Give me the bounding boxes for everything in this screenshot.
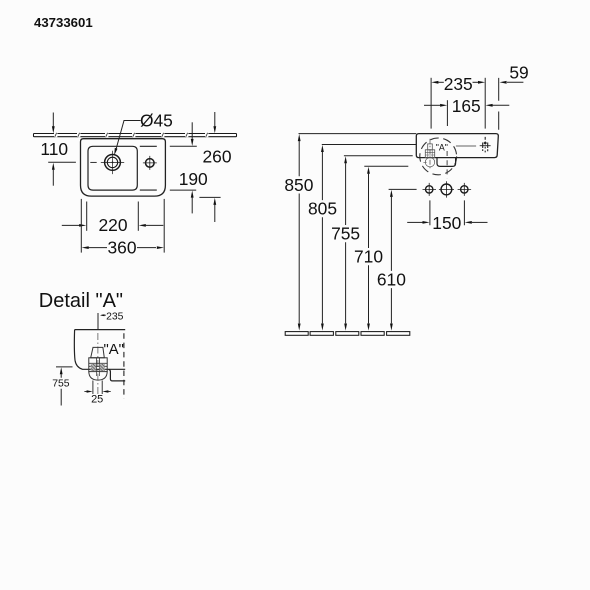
inner bowl (plan view) <box>88 146 137 190</box>
svg-text:150: 150 <box>432 213 461 233</box>
detail: nut hatched sections <box>91 364 105 371</box>
svg-text:Ø45: Ø45 <box>140 111 173 131</box>
svg-text:235: 235 <box>444 74 473 94</box>
detail: bolt centerline <box>97 333 99 397</box>
detail: bolt neck <box>91 347 105 357</box>
dimension 260 (overall depth) <box>199 112 220 222</box>
svg-text:190: 190 <box>179 169 208 189</box>
detail: bolt washer body <box>89 358 107 372</box>
svg-text:260: 260 <box>202 146 231 166</box>
dimension 360 (overall width) <box>81 199 164 253</box>
detail: label "A" <box>104 342 124 358</box>
dimension 150 (hole spacing) <box>407 200 487 225</box>
dimension 805 <box>321 145 416 331</box>
tap hole symbol right (front view) <box>480 137 491 153</box>
detail: bolt dome <box>89 372 107 381</box>
svg-text:755: 755 <box>52 378 70 389</box>
dimension 220 (bowl width) <box>62 202 164 231</box>
svg-text:"A": "A" <box>104 342 124 358</box>
floor line segments <box>285 332 410 336</box>
basin centerline (front view) <box>456 145 476 147</box>
svg-text:610: 610 <box>377 270 406 290</box>
bolt centerline (front view) <box>429 139 431 170</box>
svg-text:710: 710 <box>354 247 383 267</box>
detail: basin deck left edge and bottom <box>74 330 125 370</box>
extension dashed line basin corner (top dims) <box>498 78 500 130</box>
dimension 235 (top) <box>431 81 485 84</box>
svg-text:805: 805 <box>308 199 337 219</box>
svg-text:360: 360 <box>107 237 136 257</box>
dimension 165 (top) <box>424 104 509 107</box>
svg-text:Detail "A": Detail "A" <box>39 290 123 312</box>
svg-text:25: 25 <box>91 393 103 405</box>
detail circle "A" (dashed, front view) <box>420 138 457 175</box>
extension line left bolt center (top dims) <box>430 78 432 129</box>
Detail "A" title <box>39 290 123 312</box>
mounting hole right <box>458 183 472 196</box>
mounting hole middle <box>439 181 454 197</box>
part number 43733601 <box>34 15 93 30</box>
svg-text:110: 110 <box>40 139 68 159</box>
svg-text:59: 59 <box>509 63 528 83</box>
basin profile (front view) <box>416 134 498 158</box>
label Ø45 with leader <box>114 111 173 156</box>
svg-text:755: 755 <box>331 224 360 244</box>
hidden bowl edge dashes <box>140 146 157 190</box>
dimension 110 (wall to tap center) <box>48 113 76 186</box>
svg-text:"A": "A" <box>436 142 448 152</box>
svg-text:165: 165 <box>452 96 481 116</box>
svg-text:235: 235 <box>106 312 124 323</box>
svg-text:850: 850 <box>284 175 313 195</box>
mounting hole left <box>423 183 437 196</box>
mounting hole centerline (front view) <box>389 188 417 190</box>
svg-text:43733601: 43733601 <box>34 15 93 30</box>
detail: rear step to wall <box>109 369 126 381</box>
dimension 710 <box>364 166 408 330</box>
tap hole Ø45 (plan) <box>90 151 124 174</box>
svg-text:220: 220 <box>98 215 127 235</box>
dimension 610 (hole height) <box>390 190 393 331</box>
dimension 190 (bowl depth) <box>170 122 197 213</box>
dimension 59 (top) <box>500 81 524 84</box>
extension line tap hole row (top dims) <box>484 78 486 129</box>
wall section bar (plan view) <box>34 134 237 137</box>
dimension 850 (rim height) <box>298 134 416 331</box>
detail: basin deck top <box>75 329 126 331</box>
detail: dimension 755 (half) <box>56 367 73 406</box>
drain bump below basin <box>437 158 456 167</box>
extension line mid hole (top dims) <box>446 100 448 126</box>
basin outline (plan view) <box>81 139 166 196</box>
wall bar break marks <box>54 133 208 137</box>
overflow hole cross (plan) <box>143 156 157 170</box>
mid hole dashed centerline <box>446 151 448 179</box>
dimension 755 <box>344 156 413 331</box>
detail: dimension 25 <box>84 381 110 395</box>
fixing bolt symbol (front view) <box>423 144 434 167</box>
detail: wall dashed line <box>123 333 125 398</box>
label "A" (front view) <box>436 142 448 152</box>
detail: 235 reference mark <box>98 313 106 329</box>
